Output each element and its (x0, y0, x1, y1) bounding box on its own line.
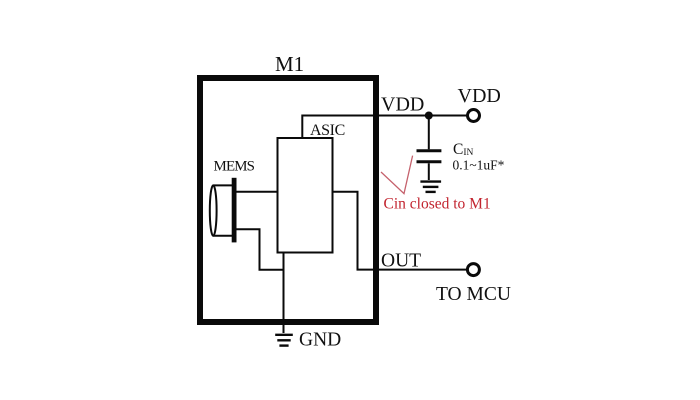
svg-text:TO MCU: TO MCU (436, 284, 511, 305)
svg-text:ASIC: ASIC (310, 122, 345, 139)
svg-text:Cin closed to M1: Cin closed to M1 (384, 195, 491, 212)
ground for capacitor (420, 182, 441, 192)
module box M1 (200, 78, 376, 322)
MEMS transducer body (210, 185, 234, 235)
wire ASIC top pin to VDD rail (302, 116, 466, 139)
leader line red annotation (381, 156, 413, 194)
wire MEMS bottom to ground net (237, 229, 284, 269)
svg-text:M1: M1 (275, 52, 304, 76)
ground (275, 335, 293, 346)
svg-text:VDD: VDD (458, 85, 501, 107)
svg-text:0.1~1uF*: 0.1~1uF* (453, 158, 505, 173)
terminal VDD (468, 110, 480, 122)
MEMS backplate bar (232, 178, 237, 243)
op-amp U1 ASIC box (278, 138, 333, 253)
node VDD junction (425, 112, 433, 120)
svg-text:GND: GND (299, 330, 341, 351)
svg-text:MEMS: MEMS (214, 158, 255, 174)
svg-text:VDD: VDD (381, 94, 424, 116)
svg-text:OUT: OUT (381, 250, 421, 271)
wire ASIC right pin to OUT (333, 192, 467, 270)
wire MEMS top to ASIC left (237, 191, 278, 193)
capacitor C_IN (417, 116, 442, 181)
wire ASIC bottom to ground (283, 253, 285, 334)
terminal OUT (467, 264, 479, 276)
